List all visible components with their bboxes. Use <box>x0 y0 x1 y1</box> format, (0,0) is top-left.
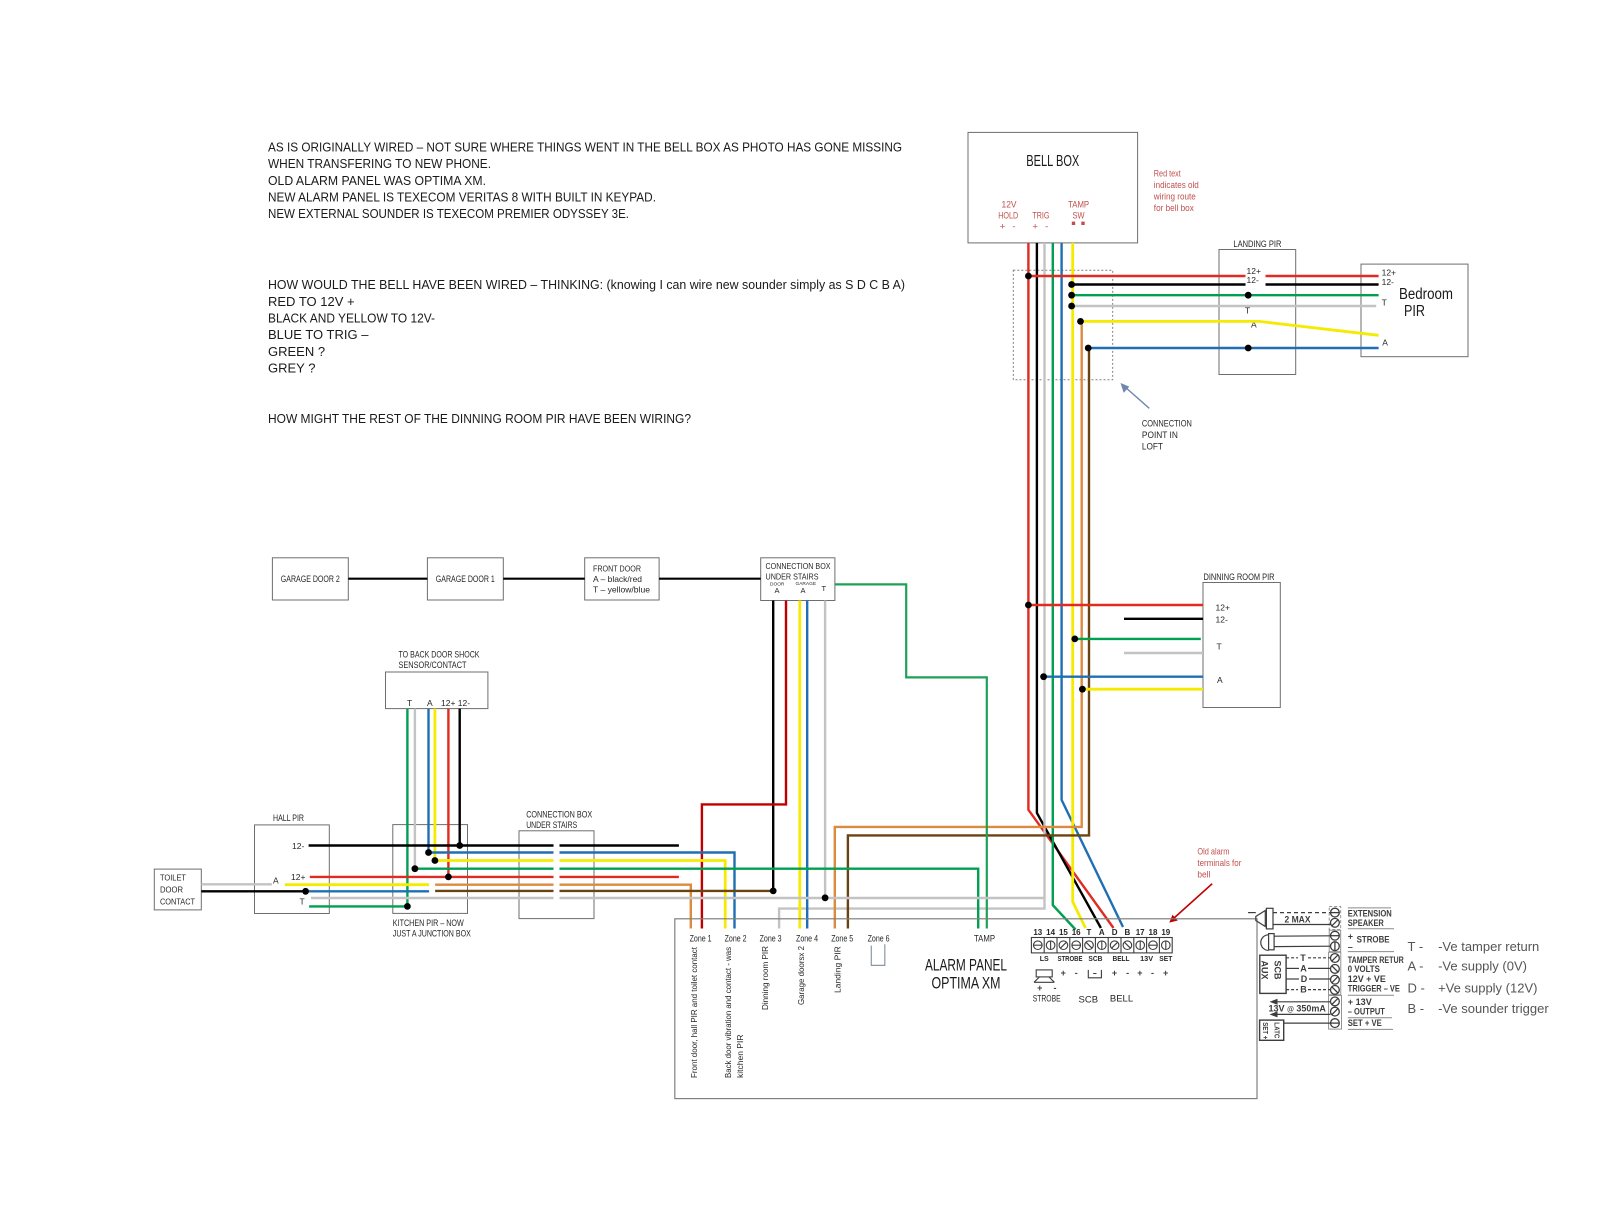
svg-text:Zone 4: Zone 4 <box>796 933 818 944</box>
wire black hall 12- horizontal <box>309 844 679 846</box>
svg-text:EXTENSION: EXTENSION <box>1348 908 1392 918</box>
wire blue to dinning room <box>1044 676 1203 678</box>
svg-text:UNDER STAIRS: UNDER STAIRS <box>766 572 819 582</box>
connection point in loft note <box>1142 419 1192 453</box>
svg-text:B: B <box>1300 985 1307 995</box>
svg-text:Bedroom: Bedroom <box>1399 286 1453 303</box>
svg-text:KITCHEN PIR – NOW: KITCHEN PIR – NOW <box>393 918 464 929</box>
wire grey stub dinning T <box>1124 652 1203 654</box>
svg-text:– OUTPUT: – OUTPUT <box>1348 1006 1385 1016</box>
svg-text:A: A <box>801 586 806 595</box>
svg-text:HOLD: HOLD <box>998 211 1018 222</box>
svg-text:STROBE: STROBE <box>1033 994 1061 1005</box>
svg-text:12-: 12- <box>1382 277 1394 287</box>
symbol labels <box>1033 994 1133 1006</box>
wire green connbox T route to tamp <box>835 584 987 928</box>
svg-text:UNDER STAIRS: UNDER STAIRS <box>526 820 577 831</box>
red arrow to terminal 19 <box>1169 884 1212 923</box>
svg-text:DINNING ROOM PIR: DINNING ROOM PIR <box>1204 572 1275 583</box>
svg-text:12-: 12- <box>1247 275 1259 285</box>
svg-text:DOOR: DOOR <box>160 885 183 895</box>
svg-text:HOW WOULD THE BELL HAVE BEEN W: HOW WOULD THE BELL HAVE BEEN WIRED – THI… <box>268 277 905 292</box>
svg-text:+: + <box>1348 932 1353 942</box>
svg-text:12+: 12+ <box>291 872 305 882</box>
bedroom PIR terminal labels <box>1382 268 1396 348</box>
svg-text:TRIG: TRIG <box>1032 211 1049 222</box>
svg-text:SPEAKER: SPEAKER <box>1348 918 1384 928</box>
kitchen PIR junction box <box>393 825 471 940</box>
svg-text:HALL PIR: HALL PIR <box>273 813 304 824</box>
wire blue connbox drop to zone4 <box>806 601 808 929</box>
zone labels <box>690 933 995 944</box>
svg-text:T – yellow/blue: T – yellow/blue <box>593 585 650 595</box>
wire green to dinning room <box>1075 638 1201 640</box>
junction kitchen green T <box>404 903 411 910</box>
dinning room PIR box <box>1203 572 1280 708</box>
svg-text:SCB: SCB <box>1079 995 1099 1006</box>
svg-text:LOFT: LOFT <box>1142 442 1163 453</box>
landing PIR box <box>1219 239 1296 375</box>
svg-text:Zone 2: Zone 2 <box>725 933 747 944</box>
svg-text:STROBE: STROBE <box>1357 935 1390 945</box>
svg-text:Old alarm: Old alarm <box>1197 846 1229 857</box>
svg-text:13V: 13V <box>1140 956 1153 963</box>
svg-text:Zone 6: Zone 6 <box>868 933 890 944</box>
svg-text:14: 14 <box>1046 928 1055 937</box>
svg-text:SENSOR/CONTACT: SENSOR/CONTACT <box>399 660 467 671</box>
svg-text:T: T <box>1087 928 1092 937</box>
wire green shock sensor drop <box>406 709 408 907</box>
wire blue loft to landing/bedroom A <box>1088 347 1378 349</box>
svg-text:SCB: SCB <box>1088 956 1102 963</box>
note block 2 <box>268 277 905 376</box>
svg-text:15: 15 <box>1059 928 1068 937</box>
svg-text:A: A <box>1300 963 1307 973</box>
svg-text:wiring route: wiring route <box>1153 192 1196 203</box>
terminal strip numbers <box>1033 928 1170 937</box>
svg-text:Dinning room PIR: Dinning room PIR <box>760 946 770 1010</box>
svg-text:D -: D - <box>1408 981 1425 996</box>
svg-text:T: T <box>822 584 827 593</box>
svg-text:SW: SW <box>1073 211 1085 222</box>
svg-text:Back door vibration and contac: Back door vibration and contact - was <box>723 947 733 1078</box>
junction kitchen yellow <box>432 857 439 864</box>
svg-text:CONNECTION: CONNECTION <box>1142 419 1192 430</box>
wire black loft to landing/bedroom 12- <box>1072 283 1379 285</box>
svg-text:GARAGE DOOR 2: GARAGE DOOR 2 <box>281 574 340 585</box>
svg-text:+: + <box>1163 968 1168 978</box>
svg-text:kitchen PIR: kitchen PIR <box>735 1035 745 1078</box>
polarity marks row <box>1061 968 1169 978</box>
red legend note <box>1153 169 1199 215</box>
svg-text:AS IS ORIGINALLY WIRED – NOT S: AS IS ORIGINALLY WIRED – NOT SURE WHERE … <box>268 140 902 155</box>
wire red loft to landing/bedroom 12+ <box>1028 275 1378 277</box>
svg-text:BELL BOX: BELL BOX <box>1026 153 1079 170</box>
svg-text:Zone 1: Zone 1 <box>690 933 712 944</box>
junction kitchen black 12V- <box>456 842 463 849</box>
svg-text:BLUE TO TRIG –: BLUE TO TRIG – <box>268 327 369 342</box>
svg-text:BELL: BELL <box>1113 956 1131 963</box>
svg-text:CONNECTION BOX: CONNECTION BOX <box>766 561 831 571</box>
connection point in loft dashed box <box>1013 270 1112 379</box>
landing PIR terminal labels <box>1245 266 1261 330</box>
svg-text:18: 18 <box>1149 928 1158 937</box>
AUX SCB box <box>1260 955 1287 993</box>
svg-text:D: D <box>1112 928 1118 937</box>
svg-text:T: T <box>1300 953 1306 963</box>
hall PIR box <box>255 813 330 914</box>
alarm panel box <box>675 919 1257 1099</box>
junction kitchen grey-green <box>412 865 419 872</box>
svg-text:+Ve supply (12V): +Ve supply (12V) <box>1438 981 1537 996</box>
junction grey T under stairs <box>822 894 829 901</box>
wire blue trig- bell drop <box>1062 243 1123 927</box>
svg-text:-: - <box>1151 968 1154 978</box>
svg-text:-Ve tamper return: -Ve tamper return <box>1438 939 1539 954</box>
bell box <box>968 132 1138 243</box>
svg-text:SET + VE: SET + VE <box>1348 1018 1382 1028</box>
wire orange loft drop to zone5 <box>835 321 1082 928</box>
svg-text:TOILET: TOILET <box>160 873 186 883</box>
sounder terminal labels <box>1348 908 1404 1028</box>
wire grey bell drop to zone3 <box>779 243 1044 929</box>
wire black 12V- bell drop <box>1037 243 1101 928</box>
svg-text:LATC: LATC <box>1273 1022 1280 1038</box>
svg-text:A -: A - <box>1408 959 1424 974</box>
svg-text:OLD ALARM PANEL WAS OPTIMA XM.: OLD ALARM PANEL WAS OPTIMA XM. <box>268 173 486 188</box>
svg-text:+: + <box>1037 983 1042 993</box>
svg-text:GARAGE: GARAGE <box>796 581 817 587</box>
wire blue hall stub <box>306 890 430 892</box>
svg-text:2 MAX: 2 MAX <box>1285 914 1311 924</box>
wire grey connbox T drop <box>824 601 826 898</box>
svg-text:ALARM PANEL: ALARM PANEL <box>925 957 1007 975</box>
svg-text:bell: bell <box>1197 869 1210 880</box>
svg-text:T: T <box>1382 298 1387 308</box>
connection box under stairs (hall) <box>761 558 835 601</box>
svg-text:-Ve sounder trigger: -Ve sounder trigger <box>1438 1001 1549 1016</box>
wire black garage door chain <box>348 578 760 580</box>
T A D B link lines <box>1286 958 1330 990</box>
wire grey hall T horizontal <box>311 897 1045 899</box>
svg-text:for bell box: for bell box <box>1154 203 1194 214</box>
svg-text:–: – <box>1348 942 1353 952</box>
svg-text:TAMP: TAMP <box>974 933 995 944</box>
wire brown kitchen to connbox door A <box>435 890 773 892</box>
sounder terminal screws column <box>1329 907 1342 1030</box>
wire yellow loft to landing A and bedroom <box>1081 321 1379 335</box>
svg-text:SCB: SCB <box>1273 961 1283 981</box>
svg-text:NEW ALARM PANEL IS TEXECOM VER: NEW ALARM PANEL IS TEXECOM VERITAS 8 WIT… <box>268 190 656 205</box>
wire green hall stub <box>309 905 407 907</box>
wire green kitchen to tamp <box>415 869 978 929</box>
junction landing PIR green <box>1245 292 1252 299</box>
svg-text:16: 16 <box>1072 928 1081 937</box>
junction loft green <box>1068 292 1075 299</box>
svg-text:D: D <box>1301 974 1308 984</box>
bedroom PIR box <box>1361 264 1468 357</box>
svg-text:Zone 5: Zone 5 <box>831 933 853 944</box>
garage door 2 box <box>272 558 348 600</box>
junction loft red 12V+ <box>1025 273 1032 280</box>
wire black shock sensor drop <box>459 709 461 846</box>
toilet door contact box <box>154 869 201 910</box>
wire black stub dinning 12- <box>1124 618 1203 620</box>
svg-text:RED TO 12V +: RED TO 12V + <box>268 294 355 309</box>
svg-text:19: 19 <box>1161 928 1170 937</box>
scan separator lines <box>1348 908 1394 1030</box>
svg-text:HOW MIGHT THE REST OF THE DINN: HOW MIGHT THE REST OF THE DINNING ROOM P… <box>268 411 691 426</box>
wire red hall 12+ horizontal <box>310 876 679 878</box>
svg-text:terminals for: terminals for <box>1197 858 1241 869</box>
svg-text:-Ve supply (0V): -Ve supply (0V) <box>1438 959 1527 974</box>
svg-text:-: - <box>1045 221 1048 232</box>
svg-text:STROBE: STROBE <box>1058 956 1083 963</box>
wire green loft to bedroom <box>1072 294 1379 296</box>
wire yellow shock sensor drop <box>433 709 436 861</box>
svg-text:PIR: PIR <box>1404 303 1425 320</box>
strobe lamp symbol <box>1261 934 1331 951</box>
wire yellow kitchen to zone2 <box>435 861 725 929</box>
wire black toilet to hall <box>201 890 305 892</box>
svg-text:13V @ 350mA: 13V @ 350mA <box>1269 1004 1327 1014</box>
junction loft blue-brown <box>1085 345 1092 352</box>
svg-text:+: + <box>1032 221 1038 232</box>
junction dinning yellow A <box>1079 686 1086 693</box>
wire grey toilet stub <box>201 883 271 885</box>
garage door 1 box <box>427 558 503 600</box>
svg-text:LS: LS <box>1040 956 1049 963</box>
svg-text:T -: T - <box>1408 939 1424 954</box>
svg-text:BLACK AND YELLOW TO 12V-: BLACK AND YELLOW TO 12V- <box>268 311 435 326</box>
svg-text:12+: 12+ <box>1382 268 1396 278</box>
wire red shock sensor drop <box>447 709 449 877</box>
svg-text:T: T <box>1217 641 1222 651</box>
svg-text:12+: 12+ <box>1216 603 1230 613</box>
svg-text:-: - <box>1075 968 1078 978</box>
svg-text:B -: B - <box>1408 1001 1425 1016</box>
wire grey loft to bedroom T <box>1072 305 1377 307</box>
junction hall PIR black-blue <box>302 888 309 895</box>
strobe +/- <box>1037 983 1056 993</box>
svg-text:GREEN ?: GREEN ? <box>268 344 325 359</box>
svg-text:POINT IN: POINT IN <box>1142 430 1178 441</box>
svg-text:OPTIMA XM: OPTIMA XM <box>932 975 1001 993</box>
wire red to dinning room 12+ <box>1028 604 1203 606</box>
junction loft yellow-orange A <box>1077 318 1084 325</box>
svg-text:T: T <box>407 698 412 708</box>
junction kitchen red 12V+ <box>445 874 452 881</box>
svg-text:A – black/red: A – black/red <box>593 574 642 584</box>
wire yellow connbox garage A drop to zone4 <box>798 601 801 929</box>
connection box under stairs (mid) <box>519 810 594 919</box>
svg-text:+: + <box>1137 968 1142 978</box>
junction loft grey T <box>1068 303 1075 310</box>
svg-text:Red text: Red text <box>1154 169 1181 180</box>
sounder legend <box>1408 939 1550 1016</box>
junction dinning green <box>1071 636 1078 643</box>
extension speaker symbol <box>1248 908 1331 929</box>
svg-text:12V: 12V <box>1002 199 1018 210</box>
wire red connbox drop to zone1 <box>702 601 786 929</box>
wire black connbox door A drop <box>772 601 774 891</box>
svg-text:-: - <box>1054 983 1057 993</box>
svg-text:NEW EXTERNAL SOUNDER IS TEXECO: NEW EXTERNAL SOUNDER IS TEXECOM PREMIER … <box>268 206 629 221</box>
wire green trig+ bell drop <box>1053 243 1076 930</box>
junction dinning blue <box>1040 673 1047 680</box>
strobe symbol <box>1034 970 1054 982</box>
svg-text:+: + <box>1061 968 1066 978</box>
svg-text:+: + <box>1000 221 1006 232</box>
svg-text:13: 13 <box>1033 928 1042 937</box>
wire red 12V+ bell drop <box>1028 243 1113 928</box>
junction kitchen blue <box>425 849 432 856</box>
junction loft black 12V- <box>1068 281 1075 288</box>
to back door shock sensor box <box>386 650 488 709</box>
wire yellow hall A stub <box>285 883 429 886</box>
svg-text:SET +: SET + <box>1261 1022 1268 1039</box>
svg-text:T: T <box>300 897 305 907</box>
13V output arrows <box>1270 999 1331 1018</box>
svg-text:FRONT DOOR: FRONT DOOR <box>593 564 641 574</box>
svg-text:+: + <box>1112 968 1117 978</box>
wire grey shock sensor drop <box>414 709 416 869</box>
svg-text:GREY ?: GREY ? <box>268 361 315 376</box>
SET LATC box <box>1260 1020 1331 1040</box>
wire yellow tamp bell drop <box>1073 243 1086 928</box>
svg-text:WHEN TRANSFERING TO NEW PHONE.: WHEN TRANSFERING TO NEW PHONE. <box>268 156 491 171</box>
svg-text:17: 17 <box>1136 928 1145 937</box>
terminal strip block <box>1031 938 1172 953</box>
svg-text:-: - <box>1012 221 1015 232</box>
svg-text:A: A <box>1382 338 1388 348</box>
junction landing PIR blue <box>1245 345 1252 352</box>
wire blue kitchen to zone2 <box>429 853 735 929</box>
svg-text:TAMP: TAMP <box>1068 199 1089 210</box>
svg-text:indicates old: indicates old <box>1154 180 1199 191</box>
svg-text:SET: SET <box>1159 956 1173 963</box>
svg-text:A: A <box>273 876 279 886</box>
svg-text:Landing PIR: Landing PIR <box>833 946 843 993</box>
svg-text:Garage doorsx 2: Garage doorsx 2 <box>796 946 806 1005</box>
svg-text:12+ 12-: 12+ 12- <box>441 698 470 708</box>
terminal strip sublabels <box>1040 956 1173 963</box>
junction brown to door A <box>770 888 777 895</box>
svg-text:CONTACT: CONTACT <box>160 897 195 907</box>
T A D B labels <box>1300 953 1308 995</box>
svg-text:TO BACK DOOR SHOCK: TO BACK DOOR SHOCK <box>399 650 480 661</box>
svg-text:AUX: AUX <box>1260 961 1270 980</box>
svg-text:BELL: BELL <box>1110 994 1133 1005</box>
svg-text:-: - <box>1126 968 1129 978</box>
svg-text:B: B <box>1125 928 1131 937</box>
svg-text:JUST A JUNCTION BOX: JUST A JUNCTION BOX <box>393 929 471 940</box>
svg-text:A: A <box>427 698 433 708</box>
zone 6 unused stub <box>871 944 885 965</box>
svg-text:0 VOLTS: 0 VOLTS <box>1348 964 1380 974</box>
svg-text:GARAGE DOOR 1: GARAGE DOOR 1 <box>436 574 495 585</box>
scb battery symbol <box>1088 970 1101 978</box>
svg-text:12V + VE: 12V + VE <box>1348 974 1386 984</box>
svg-text:A: A <box>1099 928 1105 937</box>
note block 1 <box>268 140 902 222</box>
red note: old alarm terminals for bell <box>1197 846 1241 880</box>
svg-text:A: A <box>1217 675 1223 685</box>
svg-text:Zone 3: Zone 3 <box>760 933 782 944</box>
svg-text:TRIGGER – VE: TRIGGER – VE <box>1348 983 1400 993</box>
svg-text:Front door, hall PIR and toile: Front door, hall PIR and toilet contact <box>689 946 699 1078</box>
wire yellow to dinning room A <box>1082 688 1203 691</box>
svg-text:12-: 12- <box>1216 614 1228 624</box>
svg-text:CONNECTION BOX: CONNECTION BOX <box>526 810 593 821</box>
svg-text:12-: 12- <box>292 841 304 851</box>
wire brown loft drop to zone5 <box>848 348 1089 929</box>
junction dinning red 12V+ <box>1025 602 1032 609</box>
svg-text:A: A <box>775 586 780 595</box>
wire blue shock sensor drop <box>427 709 429 853</box>
front door box <box>585 558 659 600</box>
wire orange kitchen to zone1 <box>435 885 691 929</box>
blue arrow to loft box <box>1121 383 1150 408</box>
svg-text:LANDING PIR: LANDING PIR <box>1233 239 1281 250</box>
